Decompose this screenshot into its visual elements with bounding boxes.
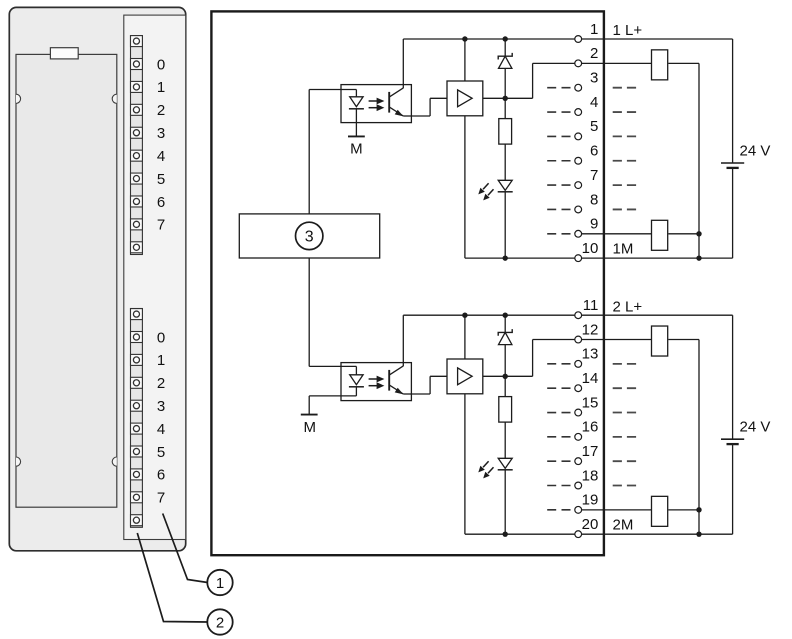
wire — [532, 63, 534, 98]
battery 24V supply 2 — [721, 439, 744, 444]
terminal cell — [131, 104, 143, 115]
junction — [462, 36, 467, 41]
dashed stub terminal 5 — [547, 135, 570, 137]
terminal cell — [131, 332, 143, 343]
ground M (lower) — [301, 414, 318, 416]
status LED D2 — [478, 458, 512, 478]
svg-text:19: 19 — [582, 492, 599, 509]
contact switch row 9 — [652, 220, 668, 250]
contact switch row 2 — [652, 50, 668, 80]
leader line to callout 2 — [137, 533, 207, 622]
svg-text:4: 4 — [590, 94, 598, 111]
wire — [668, 233, 699, 235]
svg-text:5: 5 — [157, 444, 165, 461]
svg-text:8: 8 — [590, 191, 598, 208]
svg-text:18: 18 — [582, 467, 599, 484]
dashed stub terminal 18 — [547, 485, 570, 487]
wire 2M rail — [465, 533, 575, 535]
resistor R1 — [499, 119, 512, 145]
svg-text:7: 7 — [590, 167, 598, 184]
status LED D1 — [478, 180, 512, 200]
dashed stub external 8 — [613, 208, 637, 210]
wire terminal 1 to supply — [582, 38, 733, 40]
dashed stub terminal 8 — [547, 208, 570, 210]
label plate — [50, 48, 78, 59]
svg-text:M: M — [350, 141, 363, 158]
svg-text:4: 4 — [157, 421, 165, 438]
svg-text:2: 2 — [216, 614, 224, 631]
svg-text:3: 3 — [305, 229, 314, 246]
terminal 5 — [575, 133, 582, 140]
svg-text:5: 5 — [590, 118, 598, 135]
wire opto input — [309, 365, 356, 367]
terminal 4 — [575, 109, 582, 116]
terminal 17 — [575, 458, 582, 465]
screw notch — [16, 94, 21, 103]
wire amp to M rail — [464, 394, 466, 534]
junction — [696, 255, 701, 260]
junction — [503, 374, 508, 379]
dashed stub terminal 17 — [547, 460, 570, 462]
terminal cell — [131, 59, 143, 70]
leader line to callout 1 — [163, 514, 208, 583]
svg-text:1M: 1M — [613, 240, 634, 257]
amplifier A2 — [447, 359, 483, 394]
terminal 8 — [575, 206, 582, 213]
optocoupler U1 — [341, 85, 411, 123]
svg-text:9: 9 — [590, 216, 598, 233]
terminal cell — [131, 423, 143, 434]
dashed stub terminal 14 — [547, 387, 570, 389]
terminal 15 — [575, 409, 582, 416]
terminal cell — [131, 219, 143, 230]
terminal cell — [131, 127, 143, 138]
terminal 18 — [575, 482, 582, 489]
terminal cell — [131, 309, 143, 320]
wire amp supply — [464, 39, 466, 81]
svg-text:1: 1 — [157, 352, 165, 369]
dashed stub external 4 — [613, 111, 637, 113]
battery 24V supply 1 — [721, 163, 744, 168]
wire 1M rail — [465, 257, 575, 259]
optocoupler U2 — [341, 363, 411, 401]
wire contact join vertical — [698, 340, 700, 535]
dashed stub terminal 9 — [547, 233, 570, 235]
terminal cell — [131, 515, 143, 526]
terminal 11 — [575, 312, 582, 319]
terminal 7 — [575, 182, 582, 189]
wire interface to opto2 input — [308, 258, 310, 366]
svg-text:20: 20 — [582, 516, 599, 533]
wire terminal 10 to supply — [582, 257, 733, 259]
backplane bus interface box 3 — [239, 214, 379, 258]
svg-text:16: 16 — [582, 419, 599, 436]
terminal cell — [131, 492, 143, 503]
wire 2L+ rail — [403, 314, 575, 316]
terminal 16 — [575, 433, 582, 440]
svg-text:6: 6 — [157, 467, 165, 484]
dashed stub external 15 — [613, 412, 637, 414]
wire — [668, 509, 699, 511]
terminal strip — [131, 309, 143, 528]
terminal 20 — [575, 531, 582, 538]
module boundary frame — [211, 11, 604, 555]
junction — [503, 36, 508, 41]
dashed stub terminal 7 — [547, 184, 570, 186]
junction — [462, 313, 467, 318]
front door — [16, 54, 117, 507]
svg-text:0: 0 — [157, 56, 165, 73]
terminal cell — [131, 377, 143, 388]
wire — [355, 387, 357, 396]
terminal cell — [131, 354, 143, 365]
resistor R2 — [499, 397, 512, 423]
svg-text:1: 1 — [590, 21, 598, 38]
svg-text:10: 10 — [582, 240, 599, 257]
dashed stub external 18 — [613, 485, 637, 487]
dashed stub external 5 — [613, 135, 637, 137]
svg-text:M: M — [303, 419, 316, 436]
wire terminal 11 to supply — [582, 314, 733, 316]
wire amp supply — [464, 315, 466, 359]
contact switch row 12 — [652, 326, 668, 356]
dashed stub terminal 13 — [547, 363, 570, 365]
svg-text:2 L+: 2 L+ — [613, 298, 643, 315]
wire — [504, 39, 506, 56]
wire collector to rail — [402, 315, 404, 366]
wire — [532, 340, 534, 377]
terminal 6 — [575, 157, 582, 164]
wire terminal 20 to supply — [582, 533, 733, 535]
wire to amplifier — [430, 375, 447, 377]
terminal 13 — [575, 360, 582, 367]
junction — [503, 531, 508, 536]
wire supply - — [732, 444, 734, 534]
wire LED cathode out (lower) — [309, 395, 356, 397]
wire 1L+ rail — [403, 38, 575, 40]
terminal 9 — [575, 230, 582, 237]
svg-text:0: 0 — [157, 329, 165, 346]
terminal cell — [131, 446, 143, 457]
svg-text:15: 15 — [582, 394, 599, 411]
terminal 3 — [575, 84, 582, 91]
terminal cell — [131, 242, 143, 253]
junction — [696, 531, 701, 536]
svg-text:24 V: 24 V — [740, 143, 771, 160]
svg-text:14: 14 — [582, 370, 599, 387]
wire to ground — [308, 396, 310, 415]
wire LED cathode to ground — [355, 109, 357, 137]
wire — [429, 376, 431, 394]
wire to amplifier — [430, 97, 447, 99]
ground M (upper) — [348, 135, 365, 137]
wire supply + — [732, 39, 734, 163]
wire emitter out — [411, 115, 430, 117]
dashed stub terminal 15 — [547, 412, 570, 414]
wire supply + — [732, 315, 734, 439]
terminal 14 — [575, 385, 582, 392]
svg-text:5: 5 — [157, 171, 165, 188]
wire contact join vertical — [698, 63, 700, 258]
svg-text:13: 13 — [582, 346, 599, 363]
dashed stub external 6 — [613, 160, 637, 162]
svg-text:1: 1 — [157, 79, 165, 96]
screw notch — [16, 457, 21, 466]
wire — [668, 62, 699, 64]
module body — [9, 7, 185, 550]
junction — [696, 507, 701, 512]
svg-text:2: 2 — [157, 375, 165, 392]
wire amp output — [483, 97, 533, 99]
terminal cell — [131, 36, 143, 47]
terminal 1 — [575, 36, 582, 43]
terminal strip — [131, 36, 143, 255]
svg-text:12: 12 — [582, 321, 599, 338]
terminal cell — [131, 469, 143, 480]
wire collector to rail — [402, 39, 404, 88]
wire terminal 2 to contact — [582, 62, 652, 64]
terminal 12 — [575, 336, 582, 343]
terminal cell — [131, 196, 143, 207]
terminal 10 — [575, 255, 582, 262]
svg-text:3: 3 — [157, 398, 165, 415]
zener diode V2 — [498, 329, 512, 345]
screw notch — [112, 94, 117, 103]
svg-text:24 V: 24 V — [740, 419, 771, 436]
junction — [503, 96, 508, 101]
amplifier A1 — [447, 81, 483, 116]
dashed stub external 17 — [613, 460, 637, 462]
wire — [504, 98, 506, 118]
wire terminal 9 to contact — [582, 233, 652, 235]
wire — [504, 192, 506, 258]
circled 3 — [296, 222, 323, 249]
wire — [429, 98, 431, 116]
svg-text:11: 11 — [583, 297, 599, 314]
wire emitter out — [411, 393, 430, 395]
svg-text:17: 17 — [582, 443, 599, 460]
dashed stub terminal 6 — [547, 160, 570, 162]
wire supply - — [732, 168, 734, 258]
wire terminal 19 to contact — [582, 509, 652, 511]
svg-text:7: 7 — [157, 217, 165, 234]
svg-text:1: 1 — [216, 575, 224, 592]
wire opto input — [309, 89, 356, 91]
svg-text:6: 6 — [590, 143, 598, 160]
dashed stub terminal 3 — [547, 87, 570, 89]
zener diode V1 — [498, 53, 512, 69]
terminal cover panel — [124, 15, 186, 539]
callout circle 1 — [207, 570, 232, 595]
dashed stub terminal 19 — [547, 509, 570, 511]
dashed stub terminal 4 — [547, 111, 570, 113]
terminal cell — [131, 81, 143, 92]
svg-text:6: 6 — [157, 194, 165, 211]
terminal cell — [131, 400, 143, 411]
junction — [503, 313, 508, 318]
terminal 19 — [575, 506, 582, 513]
svg-text:3: 3 — [590, 70, 598, 87]
wire — [504, 422, 506, 458]
terminal cell — [131, 150, 143, 161]
junction — [696, 231, 701, 236]
wire to terminal 2 — [533, 62, 575, 64]
svg-text:1 L+: 1 L+ — [613, 22, 643, 39]
wire — [504, 68, 506, 98]
wire — [504, 315, 506, 332]
svg-text:3: 3 — [157, 125, 165, 142]
dashed stub external 3 — [613, 87, 637, 89]
dashed stub external 13 — [613, 363, 637, 365]
wire — [504, 470, 506, 534]
terminal cell — [131, 173, 143, 184]
wire — [504, 376, 506, 396]
svg-text:4: 4 — [157, 148, 165, 165]
svg-text:7: 7 — [157, 490, 165, 507]
wire amp output — [483, 375, 533, 377]
svg-text:2M: 2M — [613, 516, 634, 533]
terminal 2 — [575, 60, 582, 67]
wire to terminal 12 — [533, 339, 575, 341]
svg-text:2: 2 — [590, 45, 598, 62]
wire amp to M rail — [464, 116, 466, 258]
wire opto1 input to interface — [308, 90, 310, 214]
dashed stub external 16 — [613, 436, 637, 438]
wire — [504, 345, 506, 377]
wire — [668, 339, 699, 341]
contact switch row 19 — [652, 496, 668, 526]
dashed stub terminal 16 — [547, 436, 570, 438]
wire terminal 12 to contact — [582, 339, 652, 341]
callout circle 2 — [207, 609, 232, 634]
svg-text:2: 2 — [157, 102, 165, 119]
dashed stub external 7 — [613, 184, 637, 186]
dashed stub external 14 — [613, 387, 637, 389]
wire — [504, 144, 506, 180]
screw notch — [112, 457, 117, 466]
junction — [503, 255, 508, 260]
